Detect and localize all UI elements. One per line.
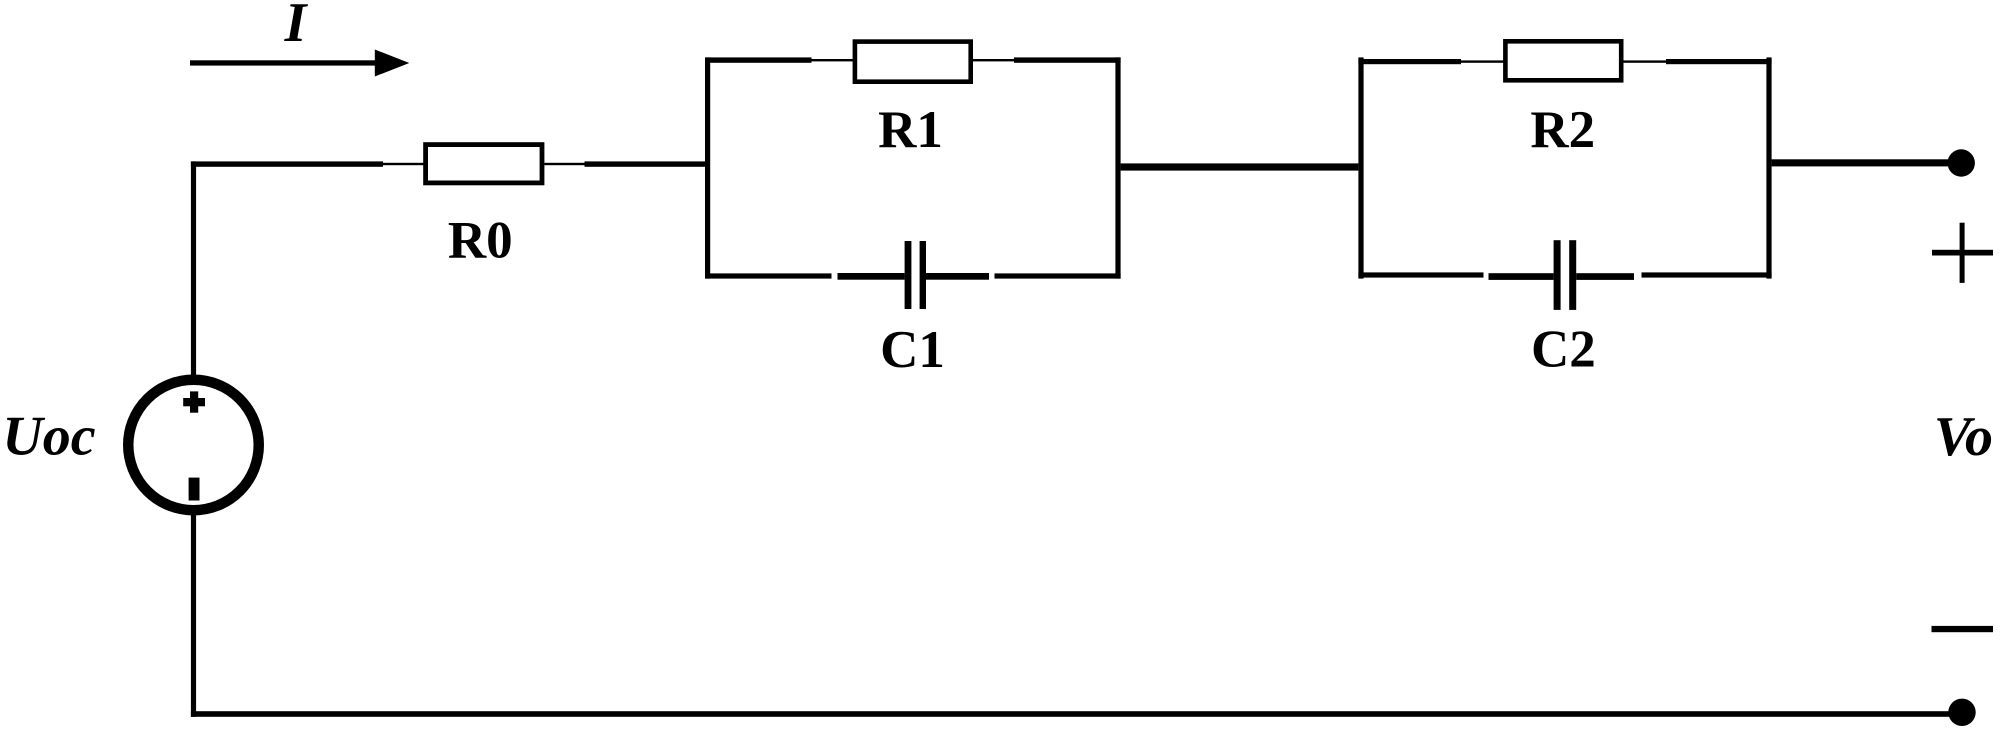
wire: thin lead into R1 bbox=[812, 59, 856, 61]
svg-text:R1: R1 bbox=[878, 101, 943, 159]
svg-text:R0: R0 bbox=[448, 212, 513, 270]
positive terminal dot bbox=[1948, 149, 1975, 176]
minus sign bbox=[1932, 626, 1994, 632]
resistor R2 bbox=[1505, 41, 1621, 80]
capacitor C2 left plate bbox=[1554, 240, 1561, 310]
svg-text:I: I bbox=[284, 0, 309, 54]
wire: capacitor C2 left lead bbox=[1489, 273, 1554, 280]
wire: capacitor C2 right lead bbox=[1576, 273, 1634, 280]
loop1 left vertical bbox=[705, 57, 710, 278]
wire: capacitor C1 right lead bbox=[926, 273, 989, 280]
negative terminal dot bbox=[1948, 699, 1975, 726]
loop2 right vertical bbox=[1766, 57, 1771, 278]
wire: thin lead into R0 bbox=[383, 163, 426, 165]
current arrow bbox=[190, 60, 376, 65]
loop2 top wire left bbox=[1358, 59, 1461, 64]
svg-text:Uoc: Uoc bbox=[2, 406, 95, 468]
loop1 top wire left bbox=[705, 57, 812, 62]
wire: thin lead out of R2 bbox=[1621, 60, 1666, 62]
capacitor C2 right plate bbox=[1569, 240, 1576, 310]
capacitor C1 left plate bbox=[905, 241, 912, 309]
loop1 bottom wire right bbox=[995, 273, 1121, 278]
wire: thin lead into R2 bbox=[1461, 60, 1505, 62]
wire: thin lead out of R1 bbox=[971, 59, 1014, 61]
loop2 bottom wire left bbox=[1358, 272, 1483, 277]
svg-text:Vo: Vo bbox=[1934, 406, 1993, 468]
wire: capacitor C1 left lead bbox=[838, 273, 905, 280]
svg-text:C2: C2 bbox=[1531, 321, 1596, 379]
loop1 bottom wire left bbox=[705, 273, 832, 278]
resistor R1 bbox=[855, 42, 971, 82]
wire: top-left horizontal from source corner to R0 bbox=[191, 161, 383, 166]
source plus mark bbox=[190, 391, 198, 412]
svg-text:R2: R2 bbox=[1530, 101, 1595, 159]
voltage source Uoc circle bbox=[128, 380, 259, 511]
loop2 top wire right bbox=[1666, 59, 1772, 64]
loop1 top wire right bbox=[1014, 57, 1121, 62]
loop2 bottom wire right bbox=[1642, 272, 1772, 277]
wire: output to positive terminal bbox=[1772, 159, 1950, 166]
wire: bottom return wire bbox=[191, 711, 1950, 717]
wire: thick to loop1 bbox=[585, 161, 707, 166]
wire: thin lead out of R0 bbox=[544, 163, 584, 165]
loop1 right vertical bbox=[1115, 57, 1120, 278]
plus sign bbox=[1960, 223, 1965, 283]
capacitor C1 right plate bbox=[920, 241, 926, 309]
resistor R0 bbox=[426, 145, 542, 183]
svg-text:C1: C1 bbox=[880, 321, 945, 379]
source minus mark bbox=[189, 478, 200, 501]
wire: connector loop1 to loop2 bbox=[1121, 163, 1359, 170]
loop2 left vertical bbox=[1358, 57, 1363, 278]
wire: left vertical from top wire to source bbox=[191, 161, 196, 376]
wire: left vertical from source to bottom wire bbox=[191, 514, 196, 717]
